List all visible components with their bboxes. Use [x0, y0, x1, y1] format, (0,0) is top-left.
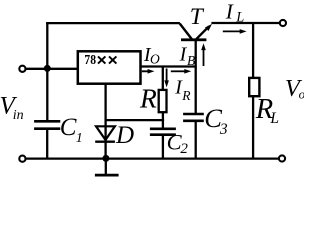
wire R_L to rail	[252, 97, 254, 159]
wire diode to rail	[104, 142, 106, 159]
arrow I_B up beside base	[201, 43, 206, 66]
svg-text:1: 1	[76, 131, 83, 146]
capacitor C2	[150, 129, 176, 135]
svg-text:C: C	[60, 114, 77, 141]
resistor R_L body	[249, 78, 259, 96]
node junction dot input	[44, 65, 51, 72]
wire C3 to rail	[195, 122, 197, 159]
arrow I_O	[142, 69, 155, 74]
wire C2 to rail	[162, 135, 164, 159]
svg-text:I: I	[225, 0, 234, 24]
svg-text:O: O	[150, 52, 160, 67]
collector diagonal	[180, 24, 192, 40]
svg-text:D: D	[115, 122, 134, 149]
svg-text:o: o	[299, 87, 304, 102]
diode D	[95, 126, 115, 141]
ground symbol bar	[95, 174, 119, 177]
arrow I_L	[223, 29, 247, 34]
ground stem	[105, 159, 107, 175]
svg-text:L: L	[269, 110, 279, 127]
wire left vertical	[46, 22, 48, 121]
output terminal top-right	[280, 20, 286, 26]
input terminal top-left	[19, 66, 25, 72]
svg-text:78: 78	[84, 53, 96, 68]
transistor T	[180, 24, 212, 42]
svg-text:R: R	[139, 82, 157, 113]
input terminal bottom-left	[19, 156, 25, 162]
capacitor C1	[34, 121, 60, 128]
arrow I_B into base	[171, 69, 191, 74]
wire top rail	[46, 22, 180, 24]
wire R_L branch	[252, 23, 254, 78]
emitter diagonal	[196, 26, 209, 39]
wire input	[26, 68, 79, 70]
wire box to base	[141, 65, 197, 67]
wire output	[211, 22, 279, 24]
svg-text:3: 3	[219, 121, 228, 138]
emitter arrowhead	[205, 24, 212, 31]
regulator U1 78xx box	[78, 51, 141, 83]
wire C1 to rail	[46, 129, 48, 159]
capacitor C3	[183, 114, 204, 121]
output terminal bottom-right	[279, 155, 285, 161]
svg-text:in: in	[13, 108, 24, 123]
svg-text:R: R	[181, 88, 191, 103]
wire base vertical	[195, 41, 197, 114]
wire resistor R branch	[162, 68, 164, 91]
svg-text:L: L	[235, 10, 244, 26]
svg-text:B: B	[187, 53, 195, 68]
wire node connector D to R	[106, 119, 165, 121]
base bar	[181, 38, 206, 41]
resistor R body	[159, 90, 167, 112]
node junction dot ground	[102, 155, 109, 162]
svg-text:2: 2	[180, 141, 188, 157]
wire bottom rail	[26, 157, 278, 159]
svg-text:T: T	[190, 4, 205, 30]
arrow I_R down	[164, 69, 169, 88]
wire box pin to diode	[104, 84, 106, 142]
wire R to C2	[162, 112, 164, 128]
